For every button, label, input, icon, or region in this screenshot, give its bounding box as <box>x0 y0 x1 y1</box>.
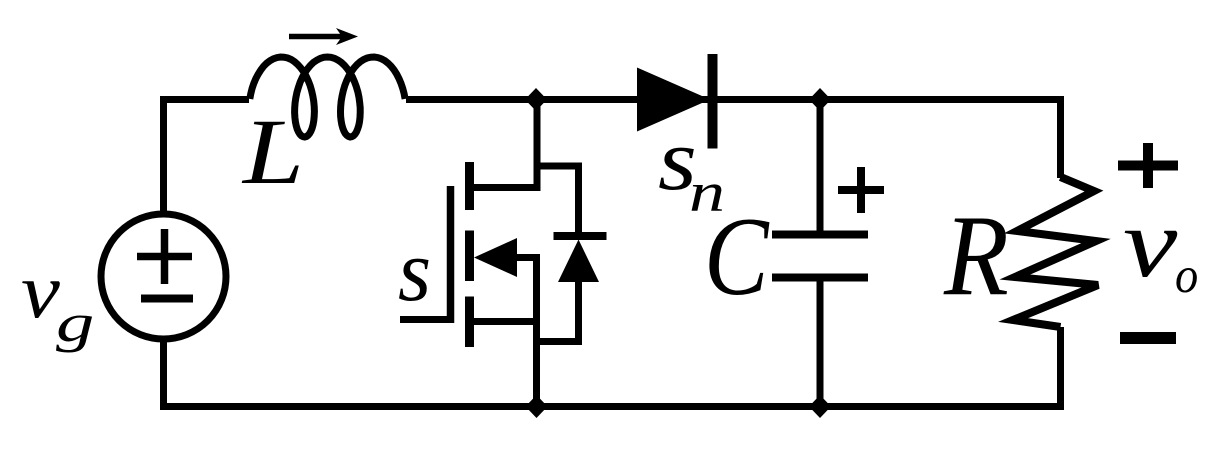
junction node at source bottom <box>526 395 548 418</box>
capacitor C bottom plate <box>772 274 868 282</box>
svg-text:R: R <box>943 192 1009 320</box>
capacitor C top plate <box>772 231 868 239</box>
Vg minus sign <box>141 295 193 303</box>
capacitor polarity plus <box>838 167 884 213</box>
svg-text:v: v <box>21 247 60 334</box>
svg-text:L: L <box>241 100 304 204</box>
svg-text:o: o <box>1175 246 1198 304</box>
diode Sn triangle <box>637 68 710 132</box>
MOSFET gate lead <box>400 316 451 323</box>
body diode anode wire to source <box>537 280 579 342</box>
MOSFET gate bar <box>447 186 455 323</box>
svg-text:g: g <box>56 294 94 353</box>
wire stub drain to body diode <box>537 166 579 236</box>
svg-text:v: v <box>1123 188 1178 297</box>
svg-text:s: s <box>398 222 431 320</box>
wire bottom rail with risers <box>164 327 1061 407</box>
junction node at drain top <box>525 88 547 111</box>
resistor R zigzag <box>1013 177 1098 327</box>
MOSFET channel source dash <box>465 297 474 348</box>
body diode cathode bar <box>554 232 607 240</box>
MOSFET source lead <box>468 318 537 325</box>
svg-text:C: C <box>704 194 770 318</box>
junction node at capacitor top <box>809 88 831 111</box>
output minus sign <box>1120 332 1176 344</box>
wire top (inductor to diode to top-right corner) <box>406 100 1061 179</box>
Vg plus sign <box>137 229 192 284</box>
MOSFET body arrow tail and source wire to bottom junction <box>515 258 537 407</box>
diode Sn cathode bar <box>708 54 718 149</box>
junction node at capacitor bottom <box>809 395 831 418</box>
capacitor C bottom wire <box>817 278 824 407</box>
inductor current arrow <box>289 34 346 40</box>
body diode triangle <box>558 240 599 283</box>
wire top-left corner (source to inductor) <box>164 100 250 215</box>
voltage source Vg circle <box>101 214 226 339</box>
capacitor C top wire <box>817 100 824 235</box>
output plus sign <box>1118 143 1178 188</box>
MOSFET channel body dash <box>465 231 474 282</box>
MOSFET body arrow <box>474 238 517 277</box>
inductor L coil <box>250 57 405 137</box>
MOSFET s drain lead and wire to top junction <box>468 100 537 188</box>
MOSFET channel drain dash <box>465 162 474 210</box>
